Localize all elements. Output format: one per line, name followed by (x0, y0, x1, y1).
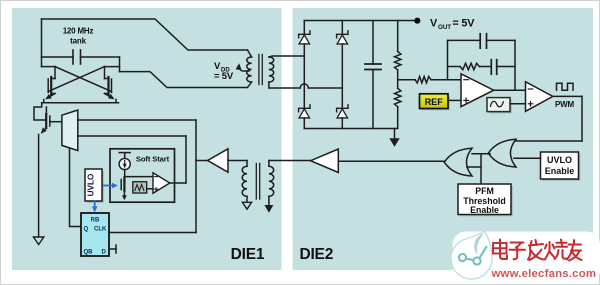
svg-text:120 MHz: 120 MHz (63, 27, 94, 36)
svg-text:PFM: PFM (475, 186, 494, 196)
svg-text:D: D (102, 250, 107, 256)
svg-text:RB: RB (91, 218, 100, 224)
svg-text:PWM: PWM (555, 100, 574, 109)
svg-text:CLK: CLK (94, 227, 107, 233)
svg-text:Q: Q (84, 227, 89, 233)
svg-text:OUT: OUT (438, 24, 451, 31)
svg-text:UVLO: UVLO (87, 173, 96, 196)
svg-text:REF: REF (425, 97, 444, 107)
svg-text:Enable: Enable (545, 166, 575, 176)
svg-text:www.elecfans.com: www.elecfans.com (491, 268, 597, 280)
svg-text:V: V (430, 17, 438, 29)
svg-text:DIE1: DIE1 (231, 246, 265, 263)
svg-text:tank: tank (70, 37, 86, 46)
svg-text:Soft Start: Soft Start (136, 155, 170, 164)
svg-text:= 5V: = 5V (214, 71, 234, 82)
svg-text:UVLO: UVLO (547, 155, 572, 165)
svg-text:DIE2: DIE2 (299, 246, 333, 263)
svg-text:Enable: Enable (470, 205, 499, 215)
svg-text:= 5V: = 5V (453, 17, 476, 29)
svg-text:QB: QB (84, 250, 94, 256)
